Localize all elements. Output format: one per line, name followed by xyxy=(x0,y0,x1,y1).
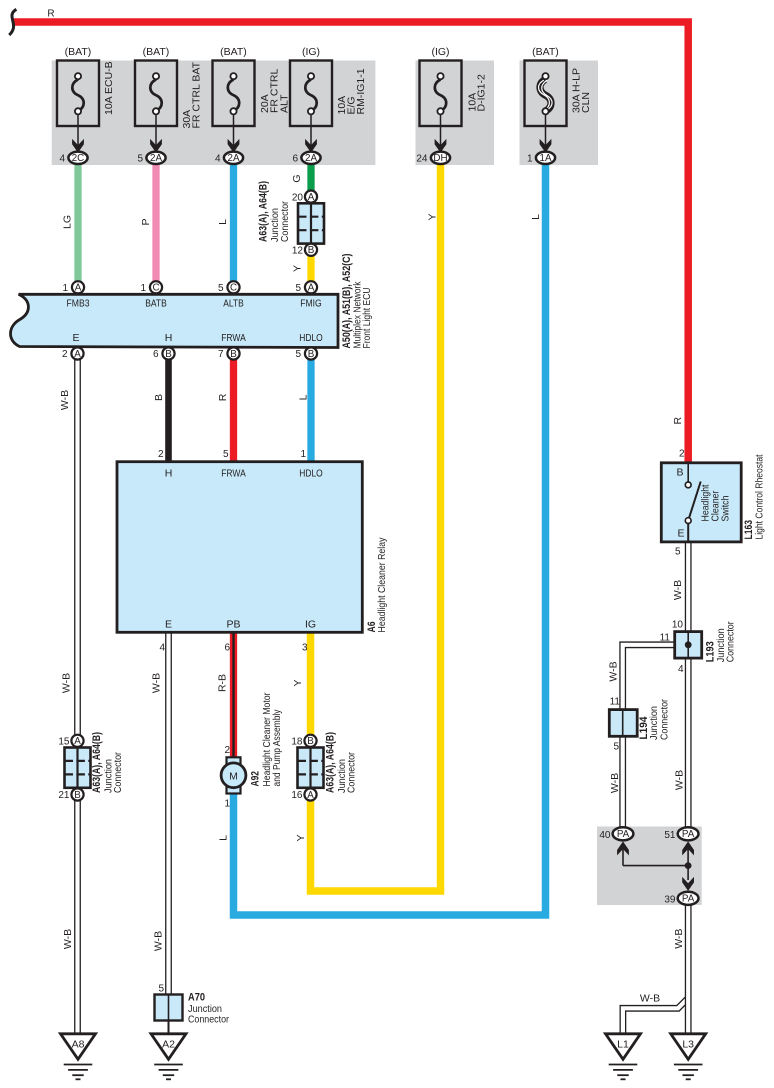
wire W-B ECU E to ground A8 via junction A63/A64 xyxy=(74,354,81,1034)
connector oval 51 PA xyxy=(678,827,699,840)
svg-text:2: 2 xyxy=(62,349,68,360)
svg-text:6: 6 xyxy=(153,349,159,360)
svg-text:Switch: Switch xyxy=(719,495,731,521)
splice arrows: PA39 arrow down xyxy=(683,878,694,890)
svg-text:1A: 1A xyxy=(540,153,552,164)
svg-text:BATB: BATB xyxy=(145,298,167,310)
svg-text:B: B xyxy=(153,394,165,401)
svg-text:2A: 2A xyxy=(150,153,162,164)
svg-text:Headlight Cleaner Relay: Headlight Cleaner Relay xyxy=(376,537,388,633)
junction connector L194 xyxy=(609,710,637,737)
wire B ECU H to relay H xyxy=(165,354,172,464)
svg-text:1: 1 xyxy=(224,799,230,810)
wire W-B branch L193 pin 11 to L194 xyxy=(623,645,676,714)
svg-text:5: 5 xyxy=(613,741,619,752)
svg-text:HDLO: HDLO xyxy=(299,468,323,480)
svg-text:B: B xyxy=(308,245,315,256)
svg-text:FRWA: FRWA xyxy=(221,468,246,480)
connector oval 39 PA xyxy=(678,892,699,905)
svg-text:W-B: W-B xyxy=(609,773,621,793)
ground A2 xyxy=(151,1034,186,1080)
svg-text:B: B xyxy=(74,790,81,801)
svg-text:RM-IG1-1: RM-IG1-1 xyxy=(355,68,367,114)
svg-text:1: 1 xyxy=(300,449,306,460)
svg-text:PA: PA xyxy=(682,829,695,840)
svg-text:15: 15 xyxy=(58,737,70,748)
pin 1 C BATB xyxy=(150,281,162,293)
svg-text:(BAT): (BAT) xyxy=(532,46,559,58)
svg-text:B: B xyxy=(308,349,315,360)
svg-text:P: P xyxy=(140,218,152,225)
svg-text:FRWA: FRWA xyxy=(221,332,246,344)
svg-text:12: 12 xyxy=(292,245,304,256)
svg-text:ALT: ALT xyxy=(278,94,290,113)
svg-text:4: 4 xyxy=(159,643,165,654)
svg-text:5: 5 xyxy=(218,283,224,294)
wire W-B L194 to PA40 xyxy=(619,733,626,834)
connector oval DH pin 24 xyxy=(431,152,450,164)
svg-text:FMIG: FMIG xyxy=(300,298,322,310)
svg-text:6: 6 xyxy=(224,643,230,654)
svg-text:A: A xyxy=(74,736,81,747)
svg-text:W-B: W-B xyxy=(62,929,74,949)
svg-text:B: B xyxy=(230,349,237,360)
svg-text:A63(A), A64(B): A63(A), A64(B) xyxy=(258,181,270,242)
node 16 A xyxy=(304,788,316,800)
svg-text:HDLO: HDLO xyxy=(299,332,323,344)
wire P fuse FR CTRL BAT to BATB xyxy=(152,164,159,288)
ground L1 xyxy=(606,1034,641,1080)
svg-text:C: C xyxy=(230,283,237,294)
svg-text:21: 21 xyxy=(58,790,70,801)
svg-text:LG: LG xyxy=(62,215,74,229)
svg-text:A: A xyxy=(75,283,82,294)
headlight cleaner switch contact xyxy=(687,463,689,482)
svg-text:5: 5 xyxy=(675,547,681,558)
svg-text:A8: A8 xyxy=(72,1038,85,1050)
svg-text:2A: 2A xyxy=(228,153,240,164)
svg-text:A: A xyxy=(308,283,315,294)
svg-text:(IG): (IG) xyxy=(302,46,320,58)
splice arrows: PA51 arrow up xyxy=(687,845,689,880)
svg-text:2: 2 xyxy=(679,449,685,460)
svg-text:W-B: W-B xyxy=(59,390,71,410)
wire W-B branch to ground L1 xyxy=(623,998,688,1034)
junction connector L193 xyxy=(675,632,702,659)
svg-text:R: R xyxy=(672,416,684,424)
wire W-B relay E to junction A70 xyxy=(165,632,172,997)
svg-text:16: 16 xyxy=(291,790,303,801)
svg-text:PA: PA xyxy=(617,829,630,840)
svg-text:Y: Y xyxy=(426,213,438,220)
wire Y relay IG to junction A63 pin 18 xyxy=(307,632,315,740)
svg-text:L1: L1 xyxy=(617,1038,629,1050)
connector oval 40 PA xyxy=(613,827,634,840)
fuse 20A FR CTRL ALT xyxy=(213,61,255,152)
junction connector A63(A),A64(B) left (W-B run) xyxy=(65,748,91,788)
connector oval 2A pin 6 xyxy=(301,152,320,164)
wire W-B PA39 to ground L3 xyxy=(685,898,692,1034)
svg-text:W-B: W-B xyxy=(672,580,684,600)
svg-text:A2: A2 xyxy=(162,1038,175,1050)
svg-text:39: 39 xyxy=(664,894,676,905)
svg-text:(BAT): (BAT) xyxy=(143,46,170,58)
svg-text:L: L xyxy=(530,214,542,220)
gray fuse band 2 xyxy=(416,61,495,166)
svg-text:4: 4 xyxy=(215,154,221,165)
svg-text:M: M xyxy=(229,770,238,782)
splice arrows: PA40 arrow up xyxy=(622,845,624,866)
wire A70 to ground A2 xyxy=(168,1021,170,1034)
fuse 10A ECU-B xyxy=(57,61,99,152)
svg-text:6: 6 xyxy=(292,154,298,165)
connector oval 2A pin 4 xyxy=(224,152,243,164)
ground A8 xyxy=(61,1034,96,1080)
svg-text:and Pump Assembly: and Pump Assembly xyxy=(271,709,283,787)
svg-text:Connector: Connector xyxy=(112,752,124,793)
svg-text:W-B: W-B xyxy=(608,661,620,681)
svg-text:W-B: W-B xyxy=(674,770,686,790)
motor A92 Headlight Cleaner Motor and Pump Assembly xyxy=(227,757,241,764)
svg-text:D-IG1-2: D-IG1-2 xyxy=(476,74,488,112)
ECU A50/A51/A52 Multiplex Network Front Light ECU xyxy=(11,294,338,347)
fuse 10A E/G RM-IG1-1 xyxy=(290,61,332,152)
svg-text:51: 51 xyxy=(664,830,676,841)
node 21 B xyxy=(71,788,83,800)
svg-text:1: 1 xyxy=(527,154,533,165)
svg-text:L: L xyxy=(218,835,230,841)
svg-text:10: 10 xyxy=(672,620,684,631)
connector oval 2C pin 4 xyxy=(68,152,87,164)
gray fuse band 3 xyxy=(520,61,599,166)
junction connector A63(A),A64(B) right (Y run) xyxy=(298,748,324,788)
svg-text:2: 2 xyxy=(158,449,164,460)
svg-text:Front Light ECU: Front Light ECU xyxy=(361,288,373,349)
junction connector A63(A),A64(B) top xyxy=(298,203,324,243)
svg-text:4: 4 xyxy=(59,154,65,165)
wire Y fuse D-IG1-2 to relay IG via junction A63/A64 xyxy=(311,164,441,892)
svg-text:4: 4 xyxy=(678,664,684,675)
svg-text:PB: PB xyxy=(226,619,240,631)
node 15 A xyxy=(71,735,83,747)
svg-text:H: H xyxy=(165,468,173,480)
svg-text:R: R xyxy=(47,9,54,20)
svg-text:C: C xyxy=(152,283,159,294)
gray fuse band 1 xyxy=(52,61,376,166)
svg-text:5: 5 xyxy=(223,449,229,460)
splice junction dot xyxy=(685,862,692,869)
pin 1 A FMB3 xyxy=(72,281,84,293)
pin 6 B H xyxy=(162,347,174,359)
svg-text:Connector: Connector xyxy=(279,201,291,242)
fuse 30A FR CTRL BAT xyxy=(135,61,177,152)
svg-text:Connector: Connector xyxy=(188,1014,229,1026)
svg-text:IG: IG xyxy=(305,619,316,631)
pin 2 A E xyxy=(71,347,83,359)
svg-text:2C: 2C xyxy=(72,153,85,164)
svg-text:Y: Y xyxy=(292,679,304,686)
node 20 A xyxy=(305,191,317,203)
svg-text:Light Control Rheostat: Light Control Rheostat xyxy=(754,454,766,539)
svg-text:B: B xyxy=(676,467,683,479)
svg-text:A: A xyxy=(74,349,81,360)
pin 5 A FMIG xyxy=(305,281,317,293)
svg-text:R-B: R-B xyxy=(217,674,229,692)
svg-text:11: 11 xyxy=(660,633,671,644)
switch L163 Light Control Rheostat xyxy=(661,463,741,542)
wire R ECU FRWA to relay FRWA xyxy=(230,354,237,464)
svg-text:L: L xyxy=(217,219,229,225)
svg-text:(BAT): (BAT) xyxy=(65,46,92,58)
pin 5 B HDLO xyxy=(305,347,317,359)
junction dot L193 xyxy=(685,641,692,648)
svg-text:7: 7 xyxy=(218,349,224,360)
wire LG fuse ECU-B to FMB3 xyxy=(74,164,81,288)
fuse 30A H-LP CLN xyxy=(525,61,567,152)
ground L3 xyxy=(671,1034,706,1080)
svg-text:20: 20 xyxy=(292,192,304,203)
wire L fuse FR CTRL ALT to ALTB xyxy=(230,164,237,288)
wire W-B L163 E to PA51 via L193 xyxy=(685,542,692,834)
svg-text:18: 18 xyxy=(291,737,303,748)
node 18 B xyxy=(304,735,316,747)
svg-text:Connector: Connector xyxy=(346,752,358,793)
svg-text:A: A xyxy=(307,790,314,801)
svg-text:W-B: W-B xyxy=(60,673,72,693)
svg-text:5: 5 xyxy=(295,283,301,294)
junction connector A70 xyxy=(155,995,183,1021)
svg-text:40: 40 xyxy=(599,830,611,841)
svg-text:A63(A), A64(B): A63(A), A64(B) xyxy=(325,732,337,793)
gray splice box (PA) xyxy=(597,827,702,906)
svg-text:2: 2 xyxy=(224,745,230,756)
svg-text:3: 3 xyxy=(302,643,308,654)
node 12 B xyxy=(305,244,317,256)
svg-text:5: 5 xyxy=(137,154,143,165)
svg-text:W-B: W-B xyxy=(673,929,685,949)
svg-text:PA: PA xyxy=(682,894,695,905)
svg-text:1: 1 xyxy=(140,283,146,294)
svg-text:R: R xyxy=(217,393,229,401)
svg-text:Y: Y xyxy=(295,834,307,841)
svg-text:5: 5 xyxy=(295,349,301,360)
svg-text:(BAT): (BAT) xyxy=(220,46,247,58)
wire G fuse RM-IG1-1 to junction A63 pin 20 xyxy=(307,164,314,197)
fuse 10A D-IG1-2 xyxy=(420,61,462,152)
svg-text:E: E xyxy=(165,619,172,631)
svg-text:W-B: W-B xyxy=(151,673,163,693)
svg-text:H: H xyxy=(165,332,173,344)
svg-text:2A: 2A xyxy=(305,153,317,164)
svg-text:W-B: W-B xyxy=(640,993,660,1005)
svg-text:ALTB: ALTB xyxy=(223,298,244,310)
svg-text:E: E xyxy=(72,332,79,344)
svg-text:W-B: W-B xyxy=(152,931,164,951)
svg-text:L: L xyxy=(298,394,310,400)
svg-text:11: 11 xyxy=(610,697,621,708)
svg-text:A92: A92 xyxy=(250,771,262,787)
connector oval 2A pin 5 xyxy=(146,152,165,164)
svg-text:24: 24 xyxy=(416,154,428,165)
pin 5 C ALTB xyxy=(227,281,239,293)
connector oval 1A pin 1 xyxy=(536,152,555,164)
wire R main power (top and right side) xyxy=(13,22,688,463)
svg-text:Connector: Connector xyxy=(659,699,671,740)
svg-text:Y: Y xyxy=(292,265,304,272)
svg-text:A63(A), A64(B): A63(A), A64(B) xyxy=(91,732,103,793)
svg-text:1: 1 xyxy=(62,283,68,294)
wire L ECU HDLO to relay HDLO xyxy=(307,354,314,464)
svg-text:A: A xyxy=(308,192,315,203)
wire R-B relay PB to motor pin 2 xyxy=(230,632,237,760)
wire Y junction A63 pin 12 to FMIG xyxy=(307,249,314,287)
splice link line xyxy=(623,865,688,867)
svg-text:E: E xyxy=(677,528,684,540)
relay A6 Headlight Cleaner Relay xyxy=(117,462,362,633)
break squiggle at wire R start xyxy=(9,9,16,35)
svg-text:(IG): (IG) xyxy=(431,46,449,58)
svg-text:B: B xyxy=(165,349,172,360)
svg-text:Connector: Connector xyxy=(725,621,737,662)
svg-text:10A ECU-B: 10A ECU-B xyxy=(103,61,115,115)
svg-text:DH: DH xyxy=(433,153,447,164)
svg-text:FR CTRL BAT: FR CTRL BAT xyxy=(191,61,203,128)
svg-text:A70: A70 xyxy=(188,992,205,1004)
svg-text:B: B xyxy=(307,736,314,747)
wire L fuse H-LP CLN to motor pin 1 xyxy=(234,164,546,916)
svg-text:L3: L3 xyxy=(682,1038,694,1050)
svg-text:G: G xyxy=(291,174,303,182)
pin 7 B FRWA xyxy=(227,347,239,359)
svg-text:CLN: CLN xyxy=(580,92,592,113)
svg-text:5: 5 xyxy=(158,984,164,995)
svg-text:FMB3: FMB3 xyxy=(67,298,90,310)
